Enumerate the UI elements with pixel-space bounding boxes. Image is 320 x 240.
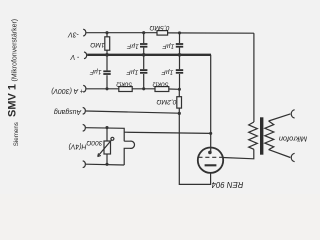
- wire 0.5M to corner: [168, 32, 254, 34]
- wire -3V rail: [86, 32, 157, 34]
- svg-text:-3V: -3V: [67, 30, 79, 37]
- wire R1 bottom stub: [106, 50, 108, 55]
- capacitor C1 plates: [140, 43, 147, 45]
- node H top / rheostat: [105, 126, 108, 129]
- node -V / R1: [105, 53, 109, 57]
- svg-text:50kΩ: 50kΩ: [116, 81, 132, 88]
- wire R4 to node: [169, 88, 180, 90]
- svg-text:SMV 1: SMV 1: [7, 84, 19, 117]
- tube cathode bar: [205, 164, 217, 166]
- capacitor C1 1uF: [143, 33, 145, 55]
- capacitor C2 plates: [176, 43, 183, 45]
- capacitor C2 1uF: [179, 33, 181, 55]
- terminal H top: [83, 124, 86, 131]
- wire tube bottom to loop: [179, 113, 210, 184]
- node H bottom / rheostat: [105, 163, 108, 166]
- transformer core: [260, 117, 263, 154]
- wire R3 to R4: [132, 88, 155, 90]
- labels (all rotated 180deg like the scan): [51, 24, 307, 189]
- svg-text:1µF: 1µF: [126, 43, 139, 50]
- svg-text:0,2MΩ: 0,2MΩ: [157, 98, 177, 105]
- wire H bottom line: [86, 163, 124, 166]
- capacitor C3 1uF: [106, 55, 108, 89]
- node -3V / R1: [105, 31, 108, 34]
- terminal Mikrofon bottom: [291, 153, 294, 161]
- rheostat wiper arrow: [98, 137, 114, 156]
- terminal H bottom: [83, 161, 86, 168]
- wire -V thick rail: [87, 54, 211, 56]
- svg-text:Ausgang: Ausgang: [54, 108, 82, 115]
- junction dots: [105, 31, 212, 166]
- wire H top line: [86, 128, 124, 142]
- svg-text:(Mikrofonverstärker): (Mikrofonverstärker): [12, 19, 19, 82]
- capacitor plates: [103, 43, 183, 75]
- svg-text:REN 904: REN 904: [211, 180, 243, 189]
- terminal Ausgang: [83, 107, 86, 114]
- svg-text:H(4V): H(4V): [69, 143, 87, 150]
- tube grid dashes: [198, 156, 222, 158]
- node +A / C5 / R5: [178, 88, 181, 91]
- capacitor C4 1uF: [143, 55, 145, 89]
- svg-text:- V: - V: [69, 53, 79, 60]
- terminal -3V: [83, 29, 86, 36]
- wire rheostat branch top: [106, 128, 108, 141]
- svg-text:Mikrofon: Mikrofon: [279, 134, 307, 143]
- svg-text:1µF: 1µF: [162, 43, 175, 50]
- wire +A down to 0.2M: [178, 89, 180, 96]
- capacitor C5 1uF: [179, 55, 181, 89]
- wire rheostat branch bottom: [106, 154, 108, 165]
- svg-text:1µF: 1µF: [161, 69, 174, 76]
- rheostat 300Ohm: [104, 141, 111, 154]
- transformer secondary winding: [265, 121, 274, 150]
- wire vertical to transformer primary top: [253, 33, 255, 122]
- wire anode vertical: [210, 55, 212, 153]
- wire grid to transformer: [223, 149, 254, 159]
- transformer primary winding: [249, 122, 258, 149]
- svg-text:300Ω: 300Ω: [86, 139, 102, 146]
- node heater / -A vertical: [209, 132, 212, 135]
- svg-text:50kΩ: 50kΩ: [153, 81, 169, 88]
- svg-text:1µF: 1µF: [126, 69, 139, 76]
- resistor R3 50kOhm: [119, 87, 132, 92]
- node -3V / C1: [142, 31, 145, 34]
- resistor R2 0.5MOhm: [157, 31, 168, 35]
- resistor R4 50kOhm: [155, 87, 169, 92]
- svg-text:0,5MΩ: 0,5MΩ: [150, 24, 170, 31]
- filament hump: [124, 141, 134, 165]
- node -3V / C2: [178, 31, 181, 34]
- capacitor C4 plates: [140, 69, 147, 71]
- node +A / C3: [105, 87, 108, 90]
- wire heater to -A long line: [124, 132, 211, 133]
- node +A / C4: [142, 87, 145, 90]
- resistor R1 1MOhm: [105, 37, 110, 50]
- node output: [178, 112, 181, 115]
- node -V / C1: [142, 53, 146, 57]
- terminal Mikrofon top: [291, 110, 294, 118]
- wire R1 top stub: [106, 33, 108, 37]
- tube anode dot: [208, 151, 212, 155]
- wire 0.2M to output node: [178, 108, 180, 113]
- page title Siemens SMV 1 (Mikrofonverstaerker): [7, 19, 20, 146]
- wire +A rail to R3: [86, 88, 118, 90]
- terminal -V: [84, 52, 87, 59]
- svg-text:+ A (300V): + A (300V): [51, 87, 84, 94]
- svg-text:1MΩ: 1MΩ: [90, 41, 104, 48]
- svg-text:1µF: 1µF: [89, 68, 102, 75]
- wire secondary top to mic terminal: [269, 114, 291, 121]
- terminal +A (300V): [83, 85, 86, 92]
- resistor R5 0.2MOhm: [177, 97, 182, 108]
- tube REN904 envelope: [198, 148, 223, 173]
- svg-text:Siemens: Siemens: [13, 122, 20, 146]
- capacitor C5 plates: [176, 69, 183, 71]
- wire secondary bottom to mic terminal: [269, 150, 291, 158]
- wire Ausgang line: [86, 111, 179, 113]
- node -V / C2: [178, 53, 182, 57]
- capacitor C3 plates: [103, 70, 110, 72]
